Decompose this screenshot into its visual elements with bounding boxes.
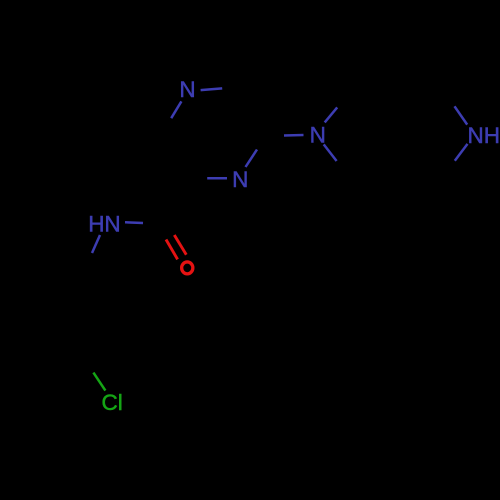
wire: amide HN-C(=O) half-bond	[125, 221, 143, 224]
wire: Namine-CH2(top) half-bond	[325, 107, 338, 122]
svg-text:NH: NH	[468, 123, 500, 148]
wire: pyrazine N4-C5 half-bond	[207, 177, 227, 180]
wire: Namine-CH2(bottom) half-bond	[324, 144, 337, 161]
wire: pyrazine N4-C3 half-bond	[246, 150, 258, 168]
svg-text:Cl: Cl	[102, 390, 123, 415]
svg-text:N: N	[232, 167, 248, 192]
wire: HN-phenyl C1 half-bond	[92, 235, 100, 253]
svg-text:N: N	[310, 123, 326, 148]
wire: pyrazine N1-C6 half-bond	[171, 101, 181, 118]
svg-text:HN: HN	[88, 212, 121, 237]
wire: C=O double bond line B	[174, 235, 186, 255]
wire: CH2-NH(bottom) half-bond	[455, 144, 468, 161]
wire: C=O double bond line A	[166, 240, 178, 260]
wire: pyrazine N1-C2 half-bond	[201, 88, 223, 90]
svg-text:N: N	[179, 77, 195, 102]
node O carbonyl oxygen	[182, 262, 193, 274]
wire: phenyl C-Cl half-bond	[93, 373, 105, 391]
wire: CH2-NH(top) half-bond	[455, 106, 468, 124]
wire: C3-Namine half-bond	[284, 134, 304, 137]
